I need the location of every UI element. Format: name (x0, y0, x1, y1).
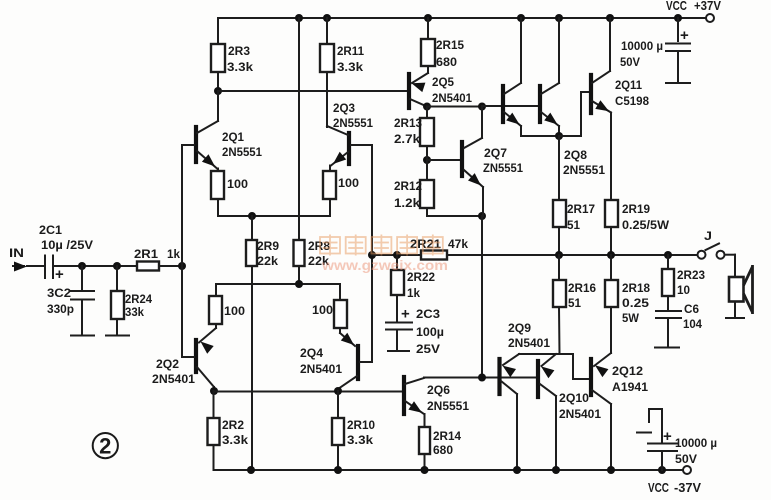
transistor Q4 base bar (356, 346, 360, 379)
svg-text:2N5551: 2N5551 (427, 399, 469, 413)
svg-text:J: J (704, 229, 712, 243)
node 2R22 junction (393, 251, 401, 259)
ground 2C3 (388, 350, 409, 352)
wire emitters to 2Q12 base (560, 353, 573, 355)
transistor Q2 emitter (199, 328, 216, 343)
svg-text:2Q2: 2Q2 (156, 357, 179, 371)
svg-text:100: 100 (338, 176, 359, 190)
transistor Q3 base bar (347, 133, 351, 164)
node 2R16 output junction (555, 251, 563, 259)
wire node A to 2Q5 base (218, 90, 407, 92)
capacitor 3C2 plates (71, 290, 94, 292)
svg-text:-37V: -37V (674, 481, 702, 495)
svg-text:33k: 33k (125, 305, 144, 319)
resistor 2R18 (605, 280, 618, 307)
wire top cap to ground (677, 53, 679, 81)
svg-text:100: 100 (312, 303, 333, 317)
svg-text:+: + (680, 27, 689, 44)
transistor Q12 collector (592, 390, 611, 404)
resistor 2R15 (421, 39, 435, 66)
svg-text:50V: 50V (675, 452, 697, 466)
svg-text:2R17: 2R17 (567, 202, 595, 216)
svg-text:2Q4: 2Q4 (300, 346, 323, 360)
svg-text:0.25/5W: 0.25/5W (622, 218, 670, 232)
svg-text:2R14: 2R14 (433, 429, 461, 443)
capacitor 3C2 lead (81, 266, 83, 290)
node 2Q4 collector junction (334, 387, 342, 395)
node feedback junction (368, 251, 376, 259)
node 2R24 junction (113, 262, 121, 270)
svg-text:2N5401: 2N5401 (300, 362, 342, 376)
wire junction to 2Q7 base (427, 159, 461, 161)
node A 2R3/2Q1 collector junction (214, 87, 222, 95)
transistor Q2 collector (197, 367, 214, 387)
wire 2R23 to C6 (667, 296, 669, 310)
resistor 2R16 (553, 280, 566, 307)
wire feedback node to 2R21 (372, 254, 421, 256)
svg-text:3C2: 3C2 (47, 286, 71, 300)
svg-text:2N5401: 2N5401 (152, 372, 195, 386)
resistor 2R22 (391, 270, 404, 295)
wire 2R24 to ground (116, 319, 118, 334)
svg-text:A1941: A1941 (612, 380, 648, 394)
wire 2R17 to output line (558, 227, 560, 255)
svg-text:680: 680 (433, 443, 453, 457)
capacitor 2C3 plates (386, 322, 412, 324)
wire 2Q4 base (360, 361, 372, 363)
input arrow (13, 265, 24, 267)
svg-text:2: 2 (99, 434, 111, 459)
wire rail to 2R15 (427, 18, 429, 39)
resistor 2R1 (137, 262, 159, 271)
wire rail to 2R11 (326, 18, 328, 44)
svg-text:22k: 22k (257, 254, 278, 268)
svg-text:100µ: 100µ (416, 325, 444, 339)
svg-text:0.25: 0.25 (622, 296, 649, 310)
transistor Q7 base bar (460, 142, 464, 176)
resistor 2Q4 emitter 100 (339, 328, 341, 333)
wire output to 2R18 (610, 255, 612, 280)
wire rail to 2R8 (298, 18, 300, 240)
svg-text:10000 µ: 10000 µ (621, 39, 663, 53)
transistor Q8b collector (541, 83, 559, 94)
transistor Q4 collector (338, 376, 357, 389)
transistor Q3 emitter (331, 152, 348, 166)
svg-text:3.3k: 3.3k (337, 60, 363, 74)
transistor Q10 emitter (542, 354, 557, 366)
svg-text:2C3: 2C3 (416, 307, 440, 321)
wire 2R21 to output line (447, 254, 699, 256)
node top-rail junction dots (295, 14, 303, 22)
svg-text:2Q3: 2Q3 (333, 101, 355, 115)
wire output node to 2R22 (396, 255, 398, 270)
capacitor C_top plates (666, 43, 690, 45)
wire rail to 2R3 (217, 18, 219, 44)
transistor Q8a collector (504, 83, 521, 94)
transistor Q10 base bar (536, 361, 540, 397)
wire 2R15 to 2Q5 emitter (427, 66, 429, 73)
transistor Q10 collector (540, 384, 556, 396)
capacitor C_bot lead (661, 452, 663, 470)
svg-text:2R18: 2R18 (622, 281, 650, 295)
node 2R13/2R12/2Q7 base junction (423, 156, 431, 164)
wire C6 to ground (667, 319, 669, 346)
node 2Q2 collector junction (210, 387, 218, 395)
transistor Q12 emitter (594, 353, 611, 366)
wire 2C3 to ground (396, 331, 398, 350)
ground speaker (726, 317, 744, 319)
capacitor C6 plates (656, 310, 681, 312)
ground C6 (655, 347, 679, 349)
node 2R23 output junction (664, 251, 672, 259)
ground bottom cap (637, 432, 651, 434)
svg-text:2N5551: 2N5551 (563, 163, 605, 177)
wire VCC +37V top rail (218, 17, 706, 19)
svg-text:IN: IN (9, 246, 24, 260)
transistor Q7 emitter (464, 170, 483, 187)
svg-text:10µ /25V: 10µ /25V (41, 238, 93, 252)
transistor Q8b emitter (541, 112, 559, 126)
wire VCC -37V bottom rail (214, 469, 684, 471)
ground 3C2 (71, 335, 94, 337)
speaker (729, 277, 744, 302)
wire 2R12 to node B (426, 208, 428, 216)
wire 2R18 to 2Q12 emitter (610, 307, 612, 353)
resistor 2R9 (246, 240, 257, 266)
svg-text:2R11: 2R11 (337, 44, 364, 58)
wire 2R19 to output line (610, 227, 612, 255)
wire 2Q3 base (351, 144, 372, 146)
svg-text:+: + (401, 306, 410, 323)
transistor Q3 collector (327, 126, 348, 135)
svg-text:2N5401: 2N5401 (559, 407, 601, 421)
svg-text:2N5551: 2N5551 (333, 116, 373, 130)
svg-text:2N5401: 2N5401 (508, 336, 550, 350)
svg-text:330p: 330p (47, 302, 74, 316)
wire 2R24 top (116, 266, 118, 291)
VCC -37V terminal (683, 466, 691, 474)
transistor Q7 collector (464, 138, 482, 148)
resistor 2R11 (320, 44, 334, 72)
wire 2Q4 100 to bottom tail (339, 284, 341, 300)
svg-text:25V: 25V (416, 342, 440, 356)
svg-text:2N5401: 2N5401 (432, 91, 472, 105)
transistor Q4 emitter (340, 333, 355, 346)
svg-text:2Q6: 2Q6 (427, 383, 450, 397)
resistor 2Q2 emitter 100 (215, 324, 217, 328)
wire input to 2C1 (27, 265, 45, 267)
wire output node to 2R23 (667, 255, 669, 269)
wire 2R22 to 2C3 (396, 295, 398, 321)
wire 2R14 to bottom rail (424, 454, 426, 470)
node 2Q5 collector junction (423, 103, 431, 111)
capacitor C_bot plates (648, 450, 677, 452)
svg-text:10000 µ: 10000 µ (675, 436, 717, 450)
wire 2Q2/2Q4 collectors to 2Q6 base (214, 391, 402, 393)
svg-text:2R1: 2R1 (134, 247, 158, 261)
svg-text:3.3k: 3.3k (227, 60, 253, 74)
svg-text:50V: 50V (620, 55, 640, 69)
svg-text:2R19: 2R19 (622, 202, 650, 216)
wire 2Q8 emitters to 2R17 (558, 136, 560, 200)
transistor Q11 base bar (589, 75, 593, 113)
wire 2Q3/2Q4 base column (371, 145, 373, 362)
svg-text:47k: 47k (448, 237, 468, 251)
svg-text:2R13: 2R13 (394, 116, 422, 130)
wire 2Q2 100 to bottom tail (215, 284, 217, 296)
transistor Q9 emitter (503, 354, 519, 365)
transistor Q1 collector (197, 121, 218, 133)
resistor 2R12 (420, 180, 434, 208)
svg-text:2Q5: 2Q5 (432, 75, 454, 89)
wire bottom diff pair tail (216, 283, 340, 285)
node B 2Q7 emitter junction (478, 212, 486, 220)
wire node B down to 2Q9 base node (481, 216, 483, 377)
svg-text:+37V: +37V (694, 0, 722, 13)
switch J lever (706, 244, 720, 251)
wire 2Q4 collector to 2R10 (337, 391, 339, 418)
svg-text:2N5551: 2N5551 (222, 145, 262, 159)
svg-text:2R23: 2R23 (677, 268, 705, 282)
wire 2Q8 pair base line (482, 105, 539, 107)
wire 2R8 to bottom tail (298, 266, 300, 284)
svg-text:2R15: 2R15 (436, 38, 464, 52)
resistor 2R8 (294, 240, 305, 266)
transistor Q11 emitter (592, 101, 611, 113)
wire 2R1 to input node (159, 265, 182, 267)
svg-text:1k: 1k (407, 286, 420, 300)
wire junction to 2R12 (426, 160, 428, 180)
transistor Q5 base bar (407, 74, 411, 108)
node 2R9 tail junction (248, 212, 256, 220)
svg-text:5W: 5W (622, 311, 640, 325)
resistor 2R10 (332, 418, 344, 445)
svg-text:1.2k: 1.2k (394, 196, 420, 210)
svg-text:3.3k: 3.3k (347, 433, 373, 447)
svg-text:1k: 1k (167, 247, 180, 261)
wire 2R16 to 2Q9/2Q10 emitters (558, 307, 561, 354)
transistor Q8a base bar (501, 86, 505, 122)
svg-text:ZN5551: ZN5551 (483, 161, 523, 175)
transistor Q12 base bar (589, 359, 593, 395)
wire switch to speaker (725, 254, 736, 256)
label circled figure 2 (93, 433, 118, 458)
resistor 2R24 (111, 291, 124, 319)
transistor Q9 base bar (497, 359, 501, 394)
transistor Q2 base bar (194, 340, 198, 372)
resistor 2R13 (420, 118, 434, 146)
wire input node column (181, 145, 183, 357)
svg-text:2.7k: 2.7k (394, 132, 420, 146)
wire 2Q2 collector to 2R2 (213, 391, 215, 418)
node 2Q7 collector junction (478, 103, 486, 111)
svg-text:100: 100 (227, 177, 248, 191)
wire 2R3 to node A (217, 72, 219, 91)
resistor 2Q1 emitter 100 (217, 169, 219, 172)
wire 2Q1 100 to tail (217, 199, 219, 216)
svg-text:51: 51 (567, 218, 580, 232)
wire output to 2R16 (558, 255, 560, 280)
svg-text:2R24: 2R24 (125, 292, 152, 306)
svg-text:www.gzweix.com: www.gzweix.com (321, 257, 448, 273)
transistor Q9 collector (501, 381, 517, 394)
watermark (320, 235, 448, 274)
svg-text:2R2: 2R2 (222, 418, 244, 432)
node 3C2 junction (78, 262, 86, 270)
svg-text:100: 100 (224, 304, 245, 318)
transistor Q5 collector (410, 99, 427, 107)
transistor Q6 base bar (402, 377, 406, 414)
svg-text:2Q1: 2Q1 (222, 130, 244, 144)
svg-text:2Q10: 2Q10 (559, 391, 589, 405)
svg-text:2Q11: 2Q11 (615, 78, 642, 92)
wire 2R9 to bottom rail (251, 266, 253, 470)
transistor Q6 emitter (405, 401, 424, 414)
wire 3C2 to ground (81, 301, 83, 334)
transistor Q1 emitter (197, 151, 217, 169)
svg-text:2C1: 2C1 (39, 223, 62, 237)
ground top cap (666, 82, 690, 84)
resistor 2R2 (208, 418, 220, 445)
capacitor C_top 10000u/50V lead (677, 18, 679, 41)
svg-text:2R10: 2R10 (347, 418, 375, 432)
transistor Q8a emitter (504, 112, 521, 126)
wire top diff pair tail (218, 215, 330, 217)
wire 2Q5 collector to 2R13 (426, 107, 428, 119)
wire 2Q5 collector to 2Q8 base line (427, 106, 482, 108)
transistor Q5 emitter (412, 73, 428, 83)
wire 2R11 to 2Q3 collector (326, 72, 328, 127)
resistor 2R21 (421, 251, 447, 260)
ground 2R24 (106, 335, 129, 337)
svg-text:+: + (663, 428, 672, 445)
svg-text:2R12: 2R12 (394, 179, 422, 193)
svg-text:VCC: VCC (666, 0, 687, 13)
resistor 2R14 (419, 427, 430, 454)
wire 2Q8 emitters to 2Q11 base (559, 135, 581, 137)
svg-text:2Q9: 2Q9 (508, 321, 531, 335)
transistor Q6 collector (405, 378, 424, 384)
svg-text:2Q8: 2Q8 (564, 148, 587, 162)
resistor 2R23 (662, 269, 674, 296)
wire 2C1 to input node (53, 265, 137, 267)
resistor 2R3 (211, 44, 225, 72)
capacitor 2C1 plates (44, 256, 46, 279)
node input junction (178, 262, 186, 270)
svg-text:2Q12: 2Q12 (612, 364, 643, 378)
svg-text:+: + (55, 266, 64, 283)
transistor Q1 base bar (194, 127, 198, 162)
resistor 2Q3 emitter 100 (329, 166, 331, 172)
VCC +37V terminal (706, 14, 714, 22)
svg-text:10: 10 (677, 283, 690, 297)
node 2R18 output junction (607, 251, 615, 259)
svg-text:51: 51 (568, 296, 581, 310)
wire 2Q1 base (182, 144, 194, 146)
node 2R8 bottom tail junction (295, 280, 303, 288)
switch J contacts (698, 251, 706, 259)
svg-text:C5198: C5198 (615, 94, 649, 108)
wire bottom cap hook (661, 409, 663, 443)
svg-text:3.3k: 3.3k (222, 433, 248, 447)
wire 2R10 to bottom rail (337, 445, 339, 470)
svg-text:104: 104 (683, 317, 702, 331)
svg-text:VCC: VCC (648, 481, 669, 495)
svg-text:680: 680 (436, 55, 457, 69)
resistor 2R17 (553, 200, 566, 227)
svg-text:2R16: 2R16 (568, 281, 596, 295)
svg-text:2Q7: 2Q7 (484, 146, 507, 160)
wire 2R2 to bottom rail (213, 445, 215, 470)
wire speaker to ground (734, 302, 736, 318)
svg-text:C6: C6 (684, 302, 699, 316)
wire 2Q3 100 to tail (329, 199, 331, 216)
transistor Q8b base bar (538, 86, 542, 122)
resistor 2R19 (605, 200, 618, 227)
wire tail to 2R9 (251, 216, 253, 240)
wire 2R13 to junction (426, 146, 428, 160)
node 2Q6 collector junction (478, 374, 486, 382)
node bottom-rail junction dots (247, 466, 255, 474)
svg-text:2R9: 2R9 (257, 239, 279, 253)
node 2Q8 emitters junction (555, 132, 563, 140)
wire 2Q2 base (182, 356, 194, 358)
svg-text:2R3: 2R3 (228, 44, 250, 58)
transistor Q11 collector (592, 71, 610, 83)
